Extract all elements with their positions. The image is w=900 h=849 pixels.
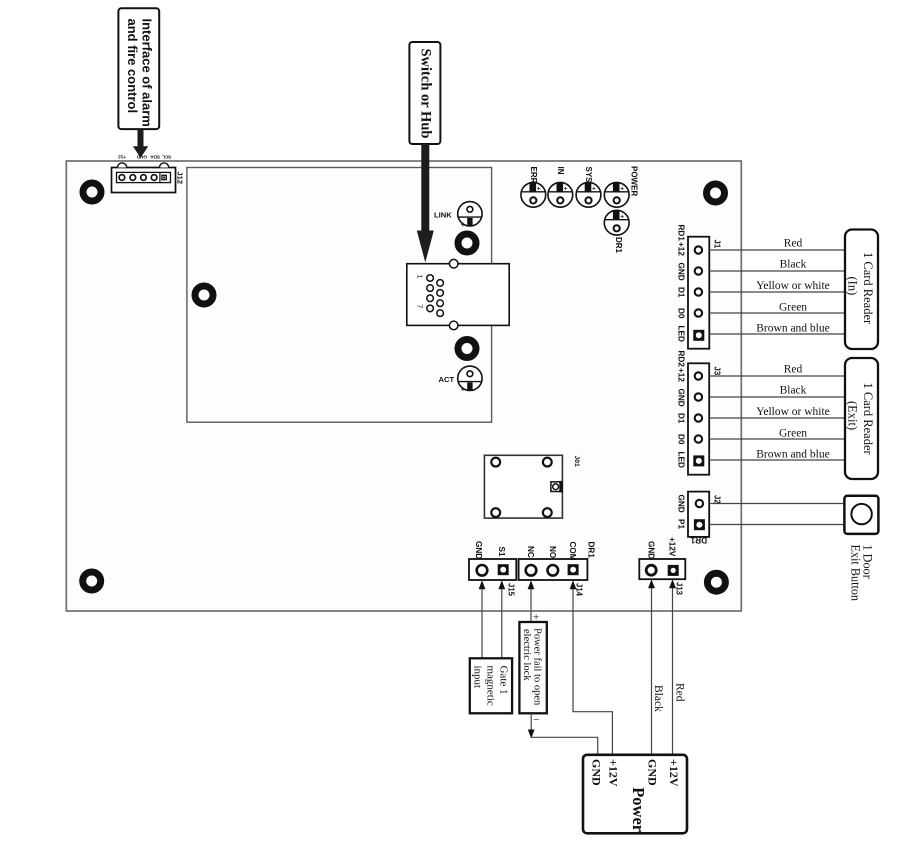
- svg-text:D1: D1: [677, 413, 686, 424]
- arrow from interface box to J12: [133, 129, 148, 158]
- svg-text:−: −: [533, 714, 539, 726]
- svg-text:+12V: +12V: [668, 537, 677, 557]
- svg-text:Red: Red: [784, 238, 803, 250]
- svg-text:+: +: [461, 220, 466, 229]
- svg-text:D1: D1: [677, 287, 686, 298]
- svg-text:LED: LED: [677, 452, 686, 468]
- svg-text:POWER: POWER: [630, 166, 639, 196]
- svg-text:7: 7: [416, 304, 425, 308]
- svg-text:J1: J1: [713, 240, 722, 249]
- svg-text:+: +: [592, 186, 596, 193]
- svg-text:P1: P1: [677, 519, 686, 529]
- label box: Interface of alarm and fire control: [118, 8, 159, 129]
- LED ERROR: [521, 167, 546, 208]
- svg-text:D0: D0: [677, 434, 686, 445]
- mounting hole top-left: [83, 183, 101, 201]
- wire+arrow +12V into J13 from power: [669, 579, 676, 755]
- mounting hole top-right: [707, 184, 725, 202]
- svg-text:Black: Black: [652, 685, 664, 712]
- wire+arrow NC into J14: [528, 580, 535, 622]
- svg-text:SYS: SYS: [584, 167, 593, 184]
- svg-text:SCL: SCL: [162, 154, 171, 160]
- connector J2: [688, 492, 709, 537]
- label box: Switch or Hub: [409, 42, 440, 144]
- svg-text:magnetic: magnetic: [485, 666, 497, 706]
- svg-text:GND: GND: [646, 759, 660, 786]
- svg-text:1: 1: [416, 275, 425, 279]
- svg-text:+12: +12: [677, 368, 686, 382]
- svg-text:Gate 1: Gate 1: [498, 666, 510, 695]
- svg-text:Interface of alarm: Interface of alarm: [139, 19, 154, 127]
- svg-text:Green: Green: [779, 302, 807, 314]
- svg-text:(In): (In): [846, 277, 860, 296]
- wire J3 pin +12 to card reader 2 (Red): [709, 375, 846, 377]
- svg-text:COM: COM: [568, 542, 577, 561]
- svg-text:and fire control: and fire control: [125, 19, 140, 114]
- RJ45 connector: [407, 259, 509, 329]
- svg-text:input: input: [472, 666, 484, 689]
- svg-text:(Exit): (Exit): [846, 401, 860, 430]
- svg-text:IN: IN: [556, 167, 565, 175]
- card reader 2 box: [845, 358, 878, 479]
- svg-text:GND: GND: [474, 541, 483, 559]
- svg-text:NO: NO: [548, 546, 557, 559]
- svg-text:J14: J14: [575, 583, 584, 597]
- card reader 1 box: [845, 230, 878, 350]
- svg-text:+12: +12: [118, 154, 126, 160]
- svg-text:GND: GND: [677, 389, 686, 407]
- svg-text:electric lock: electric lock: [521, 629, 532, 681]
- arrow from switch box to RJ45: [417, 144, 434, 263]
- J2 pin labels: [677, 495, 686, 530]
- svg-text:Red: Red: [673, 683, 685, 702]
- J13 pin labels: [647, 537, 677, 559]
- mounting hole above RJ45: [458, 234, 476, 252]
- svg-text:Brown and blue: Brown and blue: [756, 323, 829, 335]
- svg-text:RD2: RD2: [677, 351, 686, 368]
- svg-text:1 Card Reader: 1 Card Reader: [861, 252, 875, 325]
- svg-text:J01: J01: [573, 456, 580, 468]
- wire labels J1: [756, 238, 830, 335]
- svg-text:GND: GND: [589, 759, 603, 786]
- wire J3 pin LED to card reader 2 (Brown and blue): [709, 459, 846, 461]
- power fail to open electric lock box: [519, 622, 546, 713]
- svg-text:+12V: +12V: [667, 759, 681, 787]
- LED LINK: [458, 202, 482, 229]
- svg-text:GND: GND: [677, 263, 686, 281]
- LED SYS: [576, 167, 601, 208]
- wire J2 pin P1 to exit button: [709, 524, 844, 526]
- svg-text:J15: J15: [507, 583, 516, 597]
- svg-text:+: +: [537, 186, 541, 193]
- svg-text:Switch or Hub: Switch or Hub: [417, 49, 433, 139]
- mounting hole bottom-right: [707, 573, 725, 591]
- connector J15: [469, 559, 516, 580]
- exit button: [844, 496, 878, 601]
- svg-text:+: +: [620, 214, 624, 221]
- svg-text:S1: S1: [497, 547, 506, 557]
- mounting hole below RJ45: [458, 340, 476, 358]
- wire+arrow S1 into J15: [498, 580, 505, 658]
- mounting hole mid-left: [195, 286, 213, 304]
- svg-text:RD1: RD1: [677, 225, 686, 242]
- svg-text:DR1: DR1: [587, 542, 596, 559]
- svg-text:J13: J13: [675, 582, 684, 596]
- wire J1 pin D0 to card reader 1 (Green): [709, 312, 846, 314]
- wire J3 pin GND to card reader 2 (Black): [709, 396, 846, 398]
- svg-text:DR1: DR1: [614, 237, 623, 254]
- wire from lock box bottom to power GND with down arrow: [528, 713, 598, 755]
- svg-text:Green: Green: [779, 428, 807, 440]
- wire J1 pin GND to card reader 1 (Black): [709, 270, 846, 272]
- wire J1 pin D1 to card reader 1 (Yellow or white): [709, 291, 846, 293]
- svg-text:NC: NC: [526, 546, 535, 558]
- svg-text:Black: Black: [780, 259, 807, 271]
- J15 pin labels: [474, 541, 506, 559]
- J1 pin labels: [677, 225, 686, 342]
- svg-text:Red: Red: [784, 364, 803, 376]
- svg-text:ACT: ACT: [439, 375, 455, 384]
- wire J3 pin D0 to card reader 2 (Green): [709, 438, 846, 440]
- mounting hole bottom-left: [83, 572, 101, 590]
- wire+arrow GND into J15: [479, 580, 486, 658]
- svg-text:Yellow or white: Yellow or white: [756, 406, 830, 418]
- svg-text:Power: Power: [629, 787, 648, 832]
- wire+arrow GND into J13 from power: [648, 579, 655, 755]
- LED IN: [548, 167, 573, 208]
- wire J2 pin GND to exit button: [709, 503, 844, 505]
- power box: [583, 755, 687, 834]
- svg-text:LED: LED: [677, 326, 686, 342]
- svg-text:LINK: LINK: [434, 210, 452, 219]
- svg-text:GND: GND: [647, 541, 656, 559]
- svg-text:DR1: DR1: [690, 536, 707, 545]
- svg-text:+: +: [461, 385, 466, 394]
- svg-text:Brown and blue: Brown and blue: [756, 449, 829, 461]
- wire+arrow COM into J14, route to power +12V: [570, 580, 613, 755]
- J14 pin labels: [526, 542, 596, 561]
- connector J13: [639, 559, 685, 579]
- LED POWER: [604, 166, 638, 207]
- svg-text:J3: J3: [713, 367, 722, 376]
- wire J1 pin LED to card reader 1 (Brown and blue): [709, 333, 846, 335]
- gate 1 magnetic input box: [470, 658, 512, 713]
- svg-text:Yellow or white: Yellow or white: [756, 280, 830, 292]
- svg-text:J12: J12: [176, 172, 185, 185]
- connector J1: [688, 237, 709, 349]
- svg-text:+12: +12: [677, 242, 686, 256]
- svg-text:GND: GND: [677, 495, 686, 513]
- relay footprint J01: [484, 455, 580, 518]
- LED DR1: [604, 210, 629, 253]
- wire J1 pin +12 to card reader 1 (Red): [709, 249, 846, 251]
- svg-text:Exit Button: Exit Button: [849, 545, 863, 602]
- svg-text:+: +: [533, 612, 539, 624]
- svg-text:+: +: [564, 186, 568, 193]
- connector J12: [112, 163, 176, 193]
- svg-text:1 Card Reader: 1 Card Reader: [861, 383, 875, 456]
- svg-text:D0: D0: [677, 308, 686, 319]
- network module outline: [187, 168, 492, 423]
- connector J14: [519, 559, 588, 580]
- wire labels J3: [756, 364, 830, 461]
- svg-text:SDA: SDA: [150, 154, 160, 160]
- svg-text:GND: GND: [136, 154, 147, 160]
- connector J3: [688, 363, 709, 474]
- LED ACT: [458, 366, 482, 393]
- svg-text:Black: Black: [780, 385, 807, 397]
- svg-text:+: +: [620, 186, 624, 193]
- J3 pin labels: [677, 351, 686, 468]
- board outline: [66, 161, 741, 611]
- wire J3 pin D1 to card reader 2 (Yellow or white): [709, 417, 846, 419]
- J12 pin labels (+12 GND SDA SCL rotated 180): [118, 154, 172, 160]
- svg-text:+12V: +12V: [606, 759, 620, 787]
